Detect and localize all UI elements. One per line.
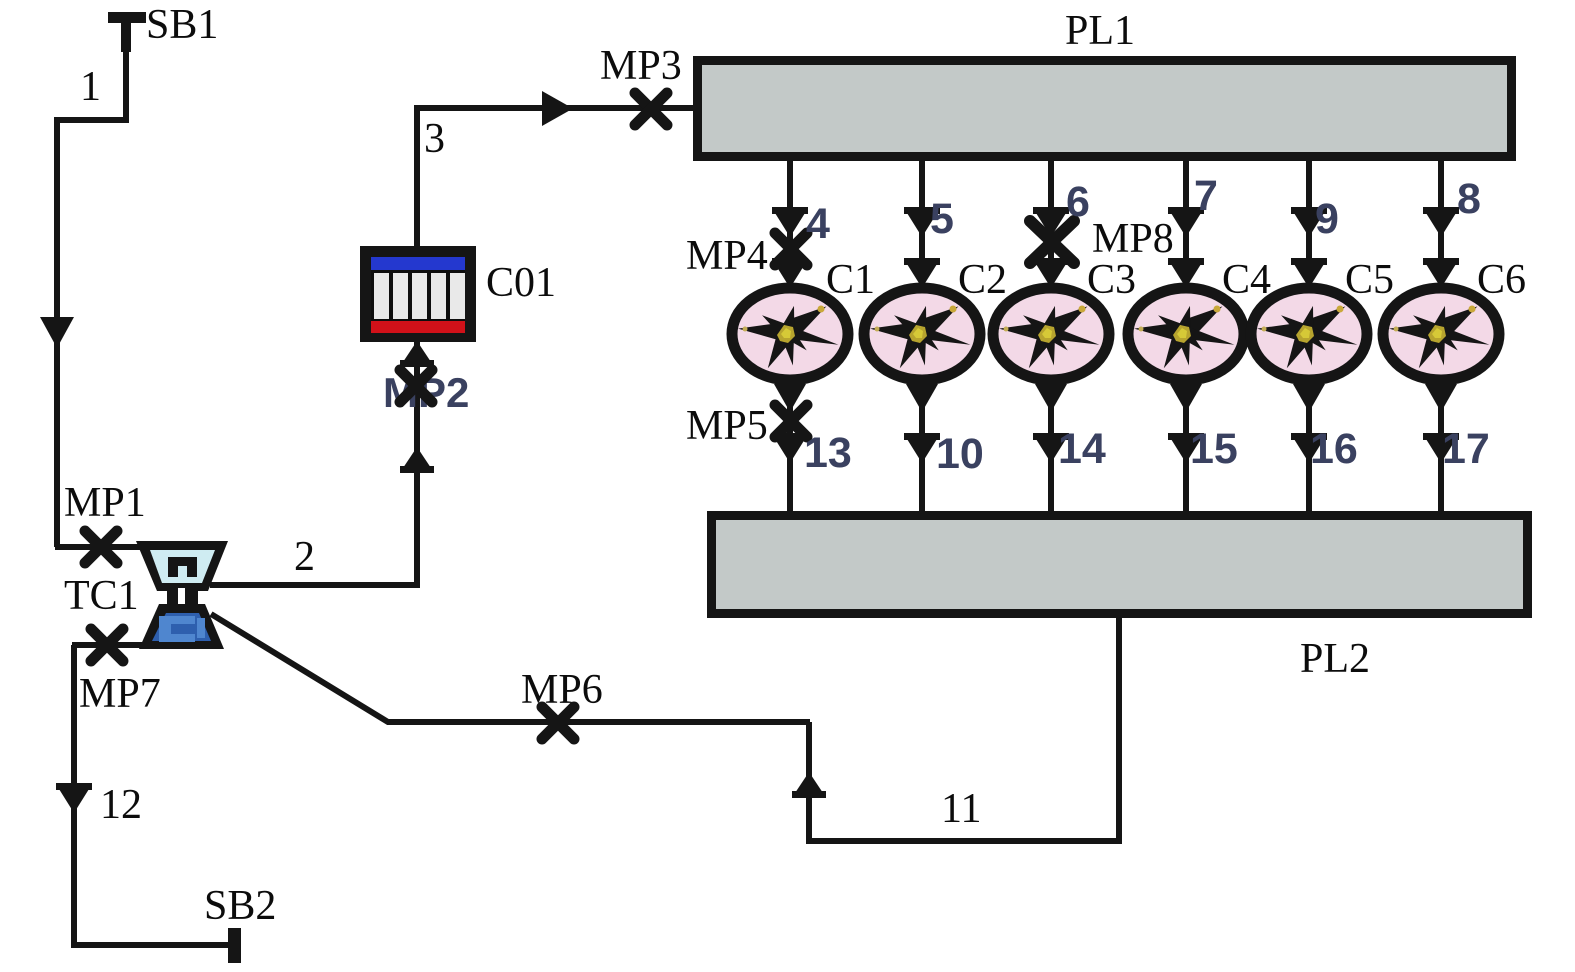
svg-text:16: 16 [1310, 425, 1358, 473]
svg-text:11: 11 [941, 786, 981, 832]
svg-text:7: 7 [1194, 172, 1218, 220]
svg-text:9: 9 [1315, 195, 1339, 243]
svg-text:SB1: SB1 [146, 2, 218, 48]
svg-text:3: 3 [424, 116, 445, 162]
svg-text:SB2: SB2 [204, 883, 276, 929]
svg-text:PL1: PL1 [1065, 8, 1135, 54]
svg-text:6: 6 [1066, 178, 1090, 226]
svg-text:15: 15 [1190, 425, 1238, 473]
svg-text:C3: C3 [1087, 257, 1136, 303]
svg-text:13: 13 [804, 429, 852, 477]
svg-text:PL2: PL2 [1300, 636, 1370, 682]
svg-text:MP6: MP6 [521, 667, 603, 713]
svg-text:5: 5 [930, 195, 954, 243]
svg-text:MP7: MP7 [79, 671, 161, 717]
svg-text:C2: C2 [958, 257, 1007, 303]
svg-text:MP8: MP8 [1092, 216, 1174, 262]
svg-text:MP1: MP1 [64, 480, 146, 526]
svg-text:1: 1 [80, 64, 101, 110]
svg-text:MP4: MP4 [686, 233, 768, 279]
svg-text:14: 14 [1058, 425, 1106, 473]
svg-text:2: 2 [294, 534, 315, 580]
svg-text:C6: C6 [1477, 257, 1526, 303]
svg-text:12: 12 [100, 782, 142, 828]
svg-text:C1: C1 [826, 257, 875, 303]
svg-text:4: 4 [806, 200, 830, 248]
svg-text:8: 8 [1457, 175, 1481, 223]
svg-text:C4: C4 [1222, 257, 1271, 303]
svg-text:MP3: MP3 [600, 43, 682, 89]
svg-text:10: 10 [936, 430, 984, 478]
svg-text:TC1: TC1 [64, 573, 139, 619]
svg-text:C5: C5 [1345, 257, 1394, 303]
svg-text:17: 17 [1442, 425, 1490, 473]
svg-text:MP5: MP5 [686, 403, 768, 449]
svg-text:C01: C01 [486, 260, 556, 306]
